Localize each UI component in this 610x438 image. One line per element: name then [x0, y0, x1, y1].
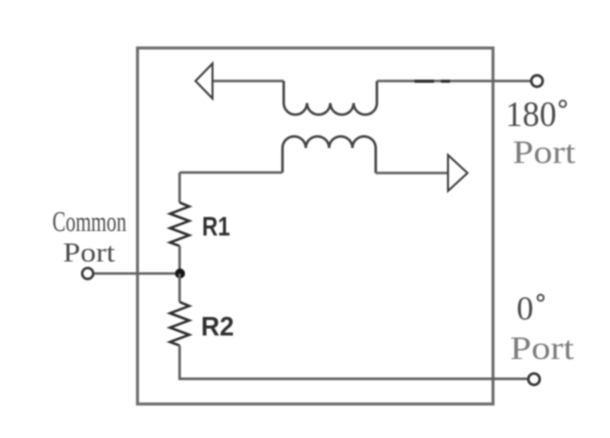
svg-text:180: 180 — [506, 94, 557, 134]
wire: top winding right lead to 180 port — [377, 80, 531, 83]
svg-text:0: 0 — [517, 291, 534, 328]
svg-text:R1: R1 — [202, 212, 230, 242]
wire: R1 to junction — [178, 246, 181, 274]
wire: common port lead — [94, 272, 180, 275]
wire: R2 down and right to 0 port — [180, 346, 528, 379]
degree mark 0 — [538, 295, 544, 301]
arrow right (bottom winding open end) — [448, 155, 468, 191]
degree mark 180 — [560, 101, 567, 108]
dash marks on 180 wire — [415, 80, 451, 83]
svg-text:Port: Port — [63, 237, 115, 268]
inductor winding L1 (top, scallops down) — [284, 81, 377, 115]
wire: vertical from L2 to R1 — [178, 173, 181, 203]
svg-text:R2: R2 — [201, 312, 234, 342]
enclosure box — [138, 48, 494, 404]
junction node — [175, 269, 185, 279]
resistor R2 — [170, 302, 189, 346]
terminal common port — [82, 268, 93, 279]
wire: L2 right lead — [376, 172, 448, 175]
svg-text:Port: Port — [513, 135, 576, 171]
svg-text:Common: Common — [52, 207, 126, 238]
resistor R1 — [170, 203, 189, 246]
terminal 180 port — [531, 75, 542, 86]
wire: junction to R2 — [178, 274, 181, 303]
terminal 0 port — [528, 374, 539, 385]
svg-text:Port: Port — [510, 331, 574, 367]
inductor winding L2 (bottom, scallops up) — [283, 136, 376, 173]
arrow left (top winding open end) — [196, 64, 213, 99]
wire: L2 left lead — [180, 171, 283, 174]
wire: top winding left lead — [213, 80, 284, 83]
